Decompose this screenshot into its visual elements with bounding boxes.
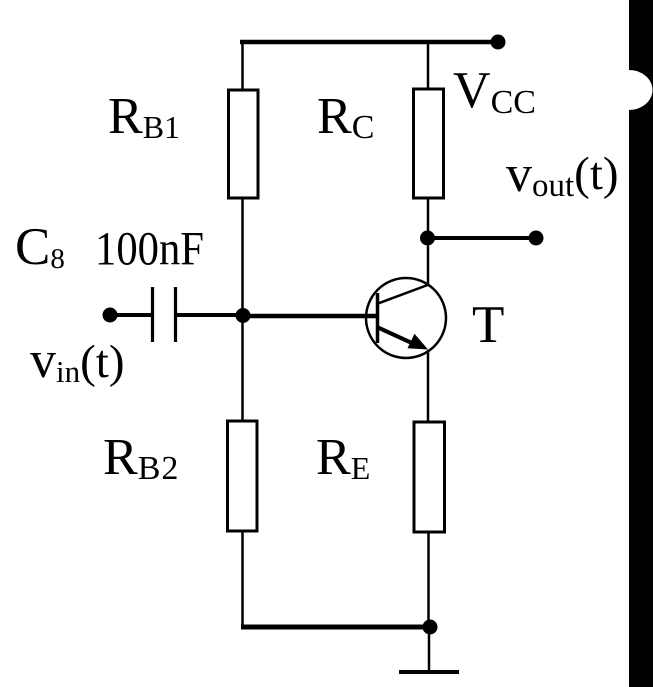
capacitor C8 plate right [174,287,177,342]
wire junction to base [243,314,378,319]
wire top rail VCC [240,40,498,45]
wire input to capacitor [110,313,151,317]
wire RC to collector [427,198,430,286]
wire emitter to RE [427,350,430,423]
svg-text:T: T [472,296,504,354]
node input terminal dot [103,308,118,323]
wire capacitor to junction [177,313,243,317]
wire left rail top (VCC to RB1) [241,42,244,91]
svg-text:100nF: 100nF [95,223,204,276]
resistor RE [414,422,445,532]
wire RE to junction [427,532,430,627]
wire right rail top (VCC to RC) [427,42,430,90]
resistor RB2 [228,421,258,531]
resistor RB1 [229,90,259,198]
node output junction dot [420,231,435,246]
node base junction dot [236,308,251,323]
wire output [427,236,534,240]
node output terminal dot [529,231,544,246]
wire RB2 to bottom rail [241,531,244,629]
decorative right black bar [629,0,653,687]
resistor RC [414,89,444,198]
node VCC terminal dot [491,35,506,50]
capacitor C8 plate left [151,287,154,342]
wire collector [427,285,430,286]
transistor T [366,278,446,358]
node ground junction dot [423,620,438,635]
wire bottom rail [241,625,430,630]
ground [399,670,459,674]
wire RB1 to base junction [241,198,244,421]
wire junction to ground [428,627,431,672]
